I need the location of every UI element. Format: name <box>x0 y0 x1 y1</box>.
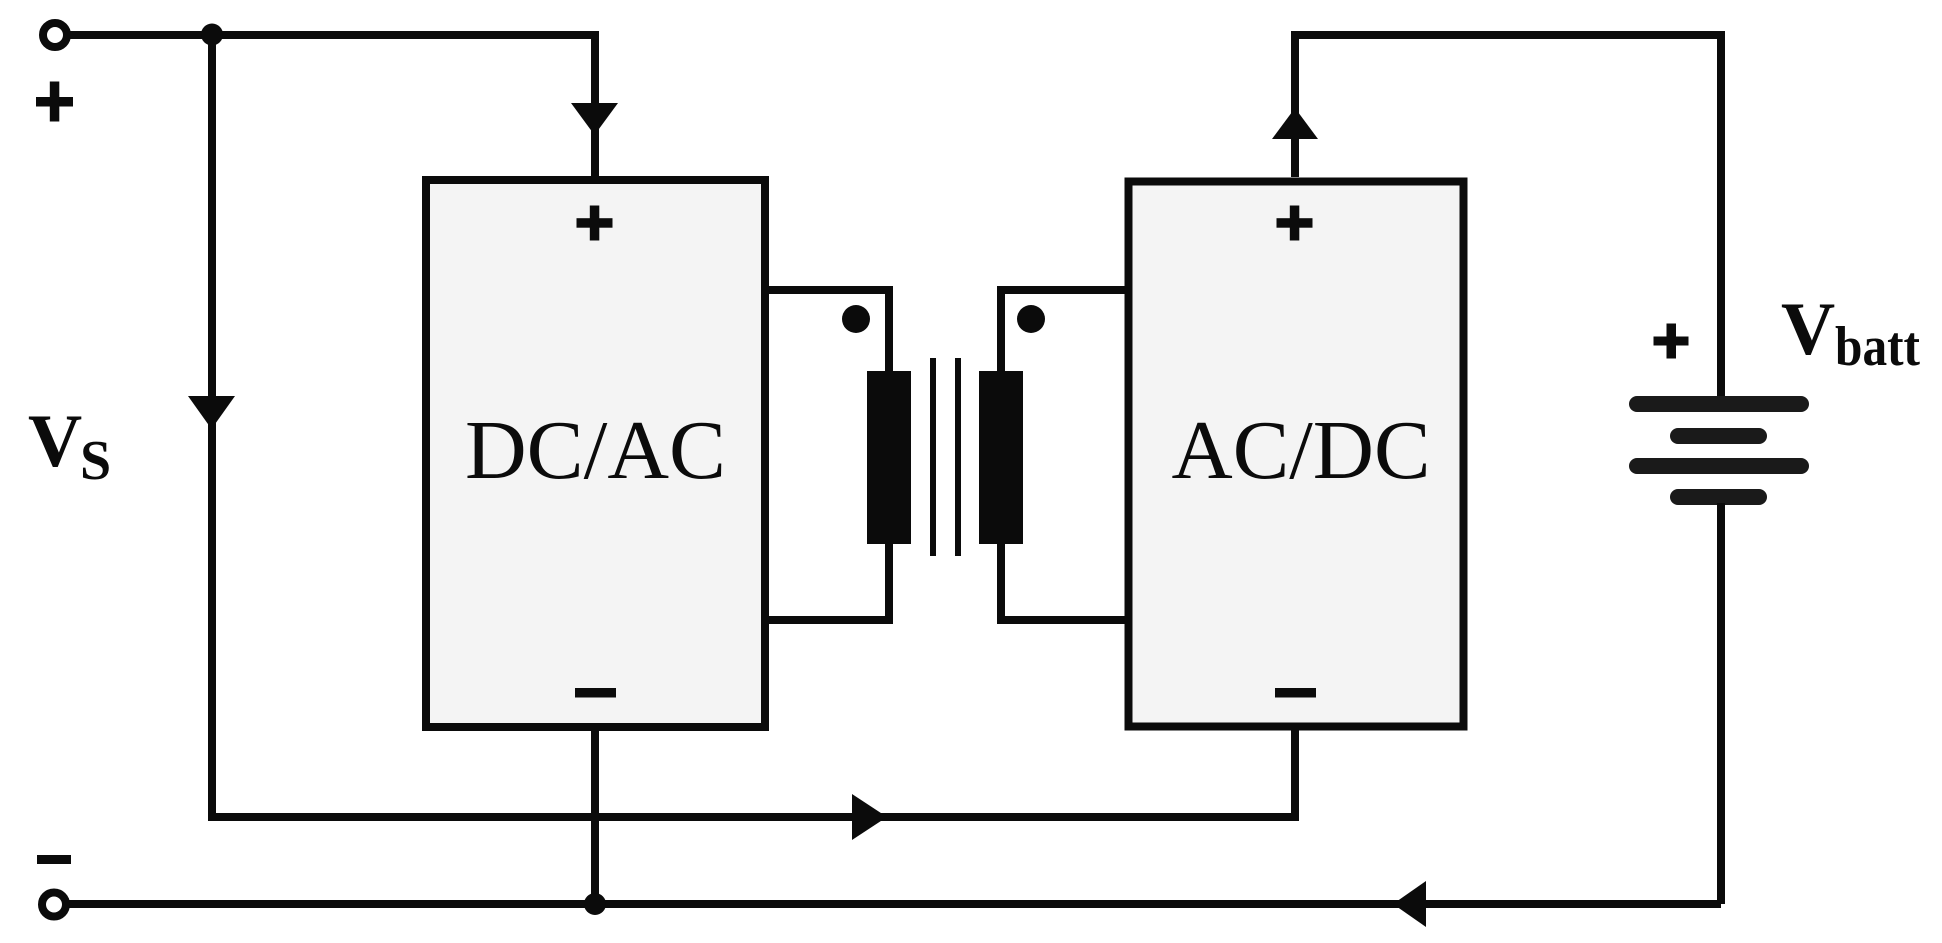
wire transformer secondary to AC/DC (top) <box>1001 290 1127 371</box>
terminal T- (open circle, bottom-left) <box>42 893 66 917</box>
svg-text:V: V <box>28 400 82 483</box>
wire AC/DC plus up and right to battery <box>1295 35 1721 398</box>
transformer T1 secondary winding <box>979 371 1023 544</box>
label + (AC/DC positive pin) <box>1277 206 1313 241</box>
arrow down on left branch <box>188 396 235 429</box>
battery B1 plate short bottom <box>1670 489 1767 505</box>
arrow down into DC/AC plus terminal <box>571 103 618 135</box>
battery B1 plate long <box>1629 458 1809 474</box>
wire left branch down, across middle, up to AC/DC minus <box>212 31 1295 817</box>
transformer T1 primary winding <box>867 371 911 544</box>
wire transformer secondary to AC/DC (bottom) <box>1001 544 1127 620</box>
transformer core <box>930 358 961 556</box>
node junction (top, at Vs branch) <box>201 24 223 46</box>
block U1 DC/AC converter <box>426 180 765 727</box>
svg-text:AC/DC: AC/DC <box>1172 404 1431 497</box>
svg-text:V: V <box>1781 288 1835 371</box>
wire transformer primary to DC/AC (bottom) <box>765 544 889 620</box>
arrow right on middle return wire <box>852 794 887 840</box>
svg-text:batt: batt <box>1835 316 1920 378</box>
polarity dot secondary <box>1017 305 1045 333</box>
label + (DC/AC positive pin) <box>577 206 613 241</box>
wire DC/AC minus down to bottom return <box>591 727 599 904</box>
arrow up out of AC/DC <box>1272 108 1318 139</box>
arrow left on bottom return wire <box>1393 881 1426 927</box>
label - (source negative) <box>37 855 71 864</box>
battery B1 plate long top <box>1629 396 1809 412</box>
battery B1 plate short <box>1670 428 1767 444</box>
svg-text:DC/AC: DC/AC <box>465 404 726 497</box>
block U2 AC/DC converter <box>1129 182 1464 727</box>
terminal T+ (open circle, top-left) <box>43 23 67 47</box>
svg-text:S: S <box>80 430 111 492</box>
wire bottom return <box>67 900 1721 908</box>
node junction (bottom) <box>584 893 606 915</box>
wire battery bottom down <box>1717 503 1725 904</box>
wire DC/AC to transformer primary (top) <box>765 290 889 371</box>
polarity dot primary <box>842 305 870 333</box>
label - (AC/DC negative pin) <box>1275 688 1316 698</box>
wire top from T+ to corner above DC/AC <box>67 35 595 176</box>
label + (source positive) <box>36 82 73 122</box>
label + (battery positive) <box>1654 324 1689 359</box>
label - (DC/AC negative pin) <box>575 688 616 698</box>
